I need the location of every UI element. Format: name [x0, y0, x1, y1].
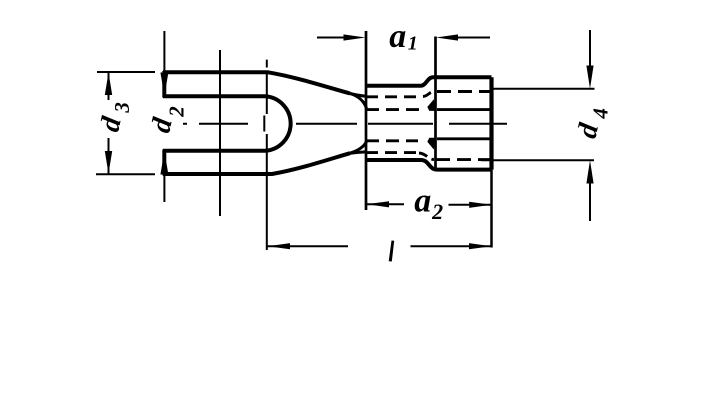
fork taper top branch B hook	[350, 94, 367, 109]
insulation crimp right edge	[489, 77, 493, 169]
insulation crimp bottom edge with step	[366, 160, 492, 170]
label l	[389, 241, 395, 262]
dim a2 left line	[367, 203, 405, 205]
svg-text:2: 2	[431, 199, 443, 224]
vertical line at stud position	[219, 50, 221, 216]
svg-text:d: d	[95, 113, 128, 134]
hidden dashed step upper	[423, 92, 434, 97]
fork taper bottom branch B hook	[350, 142, 367, 154]
dim d2 top stem	[163, 31, 165, 74]
hidden dashed line wire crimp upper	[366, 95, 421, 98]
dim a1 right arrow	[436, 34, 458, 40]
dim d4 top arrow	[586, 66, 593, 89]
hidden dashed line wire crimp lower	[366, 151, 418, 154]
svg-text:a: a	[414, 182, 431, 219]
dim a2 right arrow	[469, 202, 491, 208]
dim d4 bottom arrow	[586, 160, 593, 183]
conductor tip lower	[427, 138, 436, 150]
solid conductor line upper	[437, 108, 492, 111]
dim d2 bottom arrow	[160, 151, 168, 174]
dim d4 extension top	[492, 88, 595, 90]
hidden dashed step lower	[419, 153, 434, 160]
vertical chain line through slot arc center	[266, 60, 268, 250]
svg-text:2: 2	[165, 106, 189, 118]
extension line crimp step	[434, 37, 437, 169]
dim d4 extension bottom	[481, 159, 594, 161]
svg-text:1: 1	[408, 33, 418, 55]
wire crimp top edge with step up	[366, 77, 492, 86]
prong end face top	[162, 71, 166, 98]
dim a2 right line	[449, 204, 492, 206]
fork taper bottom branch A into dashed	[350, 152, 366, 153]
short chain dash at centerline crossing	[263, 116, 265, 132]
dim a2 left arrow	[367, 201, 389, 207]
svg-text:d: d	[572, 120, 605, 141]
dim l left arrow	[268, 243, 290, 249]
hidden dashed line insulation lower	[436, 158, 492, 161]
svg-text:4: 4	[588, 108, 612, 120]
extension line barrel start	[365, 31, 368, 210]
dim d3 top arrow	[105, 73, 112, 96]
dim d4 top stem	[589, 30, 591, 66]
fork taper top branch A into dashed	[350, 94, 366, 97]
hidden dashed line insulation upper	[437, 90, 492, 93]
prong end face bottom	[162, 150, 166, 176]
conductor tip upper	[427, 99, 436, 111]
dashed conductor line upper	[366, 108, 420, 111]
dim l line	[268, 245, 492, 247]
fork outer top edge	[163, 72, 350, 93]
dashed conductor line lower	[366, 139, 418, 142]
dim d3 bottom arrow	[105, 151, 112, 174]
solid conductor line lower	[437, 137, 492, 140]
dim a1 right line	[457, 37, 490, 39]
dim d2 bottom stem	[163, 173, 165, 202]
svg-text:3: 3	[110, 102, 134, 114]
dim d4 bottom stem	[589, 183, 591, 221]
dim d3 extension bottom	[96, 173, 155, 175]
dim a1 left line	[317, 37, 345, 39]
horizontal centerline (chain)	[183, 123, 507, 125]
dim d2 top arrow	[160, 73, 168, 96]
extension line below crimp right edge	[490, 170, 493, 248]
dim d3 extension top	[97, 71, 155, 73]
dim l right arrow	[469, 243, 491, 249]
dim a1 left arrow	[344, 34, 366, 40]
svg-text:a: a	[389, 18, 406, 55]
fork slot (U shape)	[163, 96, 291, 151]
fork outer bottom edge	[163, 153, 350, 174]
